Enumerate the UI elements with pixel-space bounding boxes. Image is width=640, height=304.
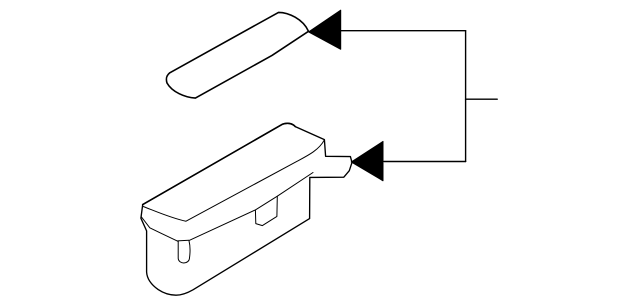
wire: bottom leader line: [384, 161, 466, 163]
bulb/socket capsule body: [166, 12, 308, 98]
lid front-top edge: [143, 140, 324, 221]
peg (small rounded tab): [178, 241, 190, 263]
arrow 1 (top, filled): [309, 10, 341, 49]
lamp housing lid ridge (bold top edge): [143, 123, 296, 204]
lid rim bottom edge (left part to peg): [142, 217, 179, 241]
rim bottom edge (right part, peg to tab): [189, 173, 313, 241]
arrow 2 (bottom, filled): [351, 141, 383, 180]
lamp housing outer contour: [141, 123, 352, 295]
wire: right vertical bracket: [465, 31, 467, 162]
wire: middle tick: [466, 98, 498, 100]
wire: top leader line: [340, 30, 466, 32]
clip pocket: [255, 196, 277, 225]
